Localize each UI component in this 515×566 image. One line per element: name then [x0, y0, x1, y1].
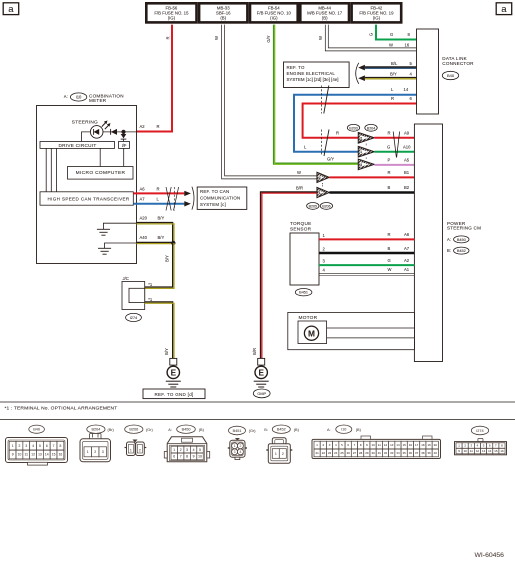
svg-text:i274: i274 [130, 315, 138, 320]
svg-text:40: 40 [434, 451, 438, 455]
svg-text:R: R [157, 124, 160, 129]
svg-text:W: W [389, 42, 393, 47]
svg-text:13: 13 [482, 449, 486, 453]
svg-text:29: 29 [365, 451, 369, 455]
svg-text:3: 3 [234, 450, 236, 454]
svg-text:1: 1 [319, 191, 321, 195]
svg-text:HIGH SPEED CAN TRANSCEIVER: HIGH SPEED CAN TRANSCEIVER [47, 197, 129, 202]
junction dot [121, 130, 125, 134]
svg-text:1: 1 [87, 450, 89, 454]
connector pinout B451 (4-pin round, gray) [229, 426, 246, 435]
wire B/L from data link connector pin 5 to engine electrical system [365, 66, 417, 68]
wire B/Y from pin A20 [137, 223, 173, 243]
svg-text:28: 28 [359, 451, 363, 455]
svg-text:2: 2 [180, 448, 182, 452]
svg-text:14: 14 [45, 453, 49, 457]
svg-text:12: 12 [31, 453, 35, 457]
svg-text:B204: B204 [91, 428, 100, 432]
svg-text:34: 34 [396, 451, 400, 455]
svg-text:A:: A: [327, 428, 331, 432]
svg-text:20: 20 [434, 443, 438, 447]
connector triangle pin 1 (B/R wire, B205/B206) [317, 187, 330, 197]
svg-text:G: G [387, 144, 390, 149]
svg-text:2: 2 [239, 444, 241, 448]
svg-text:1: 1 [173, 448, 175, 452]
svg-text:17: 17 [415, 443, 419, 447]
svg-text:12: 12 [476, 449, 480, 453]
svg-text:(IG): (IG) [270, 15, 278, 20]
svg-text:1: 1 [12, 444, 14, 448]
svg-text:10: 10 [371, 443, 375, 447]
svg-text:I/F: I/F [122, 143, 127, 148]
wires drive circuit to CAN transceiver [45, 148, 47, 191]
svg-text:(B): (B) [356, 428, 362, 432]
svg-text:11: 11 [378, 443, 381, 447]
svg-text:A:: A: [168, 428, 172, 432]
svg-text:*1 : TERMINAL No. OPTIONAL AR: *1 : TERMINAL No. OPTIONAL ARRANGEMENT [5, 406, 118, 412]
wire R from triangle (W) to power steering CM pin B1 [329, 176, 414, 178]
connector pinout B40 (16-pin data link connector) [29, 425, 45, 433]
svg-text:R: R [388, 170, 391, 175]
svg-text:i10: i10 [76, 95, 82, 100]
svg-text:B451: B451 [299, 291, 308, 295]
svg-text:A1: A1 [404, 267, 410, 272]
svg-text:A10: A10 [403, 144, 411, 149]
wire G from fuse FB-42 to data link connector pin 8 [376, 25, 417, 40]
svg-text:(B): (B) [294, 428, 300, 432]
svg-text:2: 2 [139, 448, 141, 452]
connector label B206 [320, 203, 332, 210]
diode [110, 129, 112, 135]
svg-text:SYSTEM [1c] [2d] [3e] [4e]: SYSTEM [1c] [2d] [3e] [4e] [287, 77, 339, 82]
svg-text:32: 32 [384, 451, 388, 455]
svg-text:W: W [214, 36, 219, 40]
ref box REF. TO CAN COMMUNICATION SYSTEM [197, 187, 247, 209]
svg-text:B:: B: [447, 248, 451, 253]
svg-text:REF. TO CAN: REF. TO CAN [200, 189, 229, 194]
separator line above footnote [0, 401, 515, 403]
connector label B203 [347, 124, 359, 131]
svg-text:10: 10 [464, 449, 468, 453]
svg-text:B203: B203 [349, 126, 357, 130]
svg-text:E: E [171, 369, 177, 378]
svg-text:19: 19 [427, 443, 431, 447]
svg-text:B452: B452 [457, 249, 466, 253]
svg-text:4: 4 [193, 448, 195, 452]
svg-text:B450: B450 [182, 428, 191, 432]
svg-text:7: 7 [180, 455, 182, 459]
wire R from triangle 2 to power steering CM pin A9 [374, 137, 414, 139]
svg-text:35: 35 [403, 451, 407, 455]
svg-text:30: 30 [371, 451, 375, 455]
dashed link between W and B/R triangles [322, 183, 324, 187]
connector label B40 [442, 71, 458, 79]
svg-text:B452: B452 [277, 428, 286, 432]
wire L from data link connector pin 14 to connector triangle 1 (B203) [294, 95, 417, 152]
svg-text:E: E [258, 369, 264, 378]
svg-text:11: 11 [470, 449, 473, 453]
svg-text:16: 16 [409, 443, 413, 447]
fuse box MB-33 SBF-16 (B) [199, 3, 247, 22]
svg-text:DRIVE CIRCUIT: DRIVE CIRCUIT [59, 143, 97, 148]
svg-text:B/L: B/L [391, 61, 398, 66]
wire R CAN high from pin A6 [133, 192, 184, 194]
svg-text:G: G [390, 32, 393, 37]
marker box a (top-left) [3, 3, 19, 15]
svg-text:B/R: B/R [252, 348, 257, 355]
svg-text:31: 31 [378, 451, 382, 455]
connector label B205 [307, 203, 319, 210]
svg-text:a: a [8, 4, 14, 15]
wire B/R from ground to connector triangle 1 [261, 192, 317, 358]
high speed CAN transceiver box [40, 192, 133, 205]
svg-text:10: 10 [18, 453, 22, 457]
svg-text:8: 8 [60, 444, 62, 448]
svg-text:A20: A20 [140, 216, 148, 221]
ground terminal connector [170, 358, 177, 365]
svg-text:21: 21 [316, 451, 320, 455]
svg-text:STEERING CM: STEERING CM [447, 226, 481, 231]
svg-text:16: 16 [59, 453, 63, 457]
svg-text:B/Y: B/Y [158, 235, 165, 240]
wire G torque sensor pin 3 to A2 [319, 264, 414, 266]
ground E (power steering earth) [255, 366, 267, 378]
svg-text:B204: B204 [367, 126, 375, 130]
svg-text:22: 22 [322, 451, 326, 455]
svg-text:A5: A5 [404, 158, 410, 163]
arrows to CAN communication system [184, 191, 191, 196]
svg-text:A2: A2 [140, 124, 146, 129]
svg-text:B40: B40 [33, 428, 40, 432]
marker box a (top-right) [496, 3, 512, 15]
svg-text:W: W [388, 267, 392, 272]
svg-text:METER: METER [89, 98, 107, 103]
svg-text:MICRO COMPUTER: MICRO COMPUTER [76, 170, 126, 176]
svg-text:*1: *1 [148, 282, 153, 287]
twisted pair mark on A9/A10 wires [393, 132, 396, 158]
svg-text:16: 16 [500, 449, 504, 453]
wire from LED to drive circuit [82, 132, 91, 142]
connector triangle pin 1 (L wire, B203/B204) [358, 146, 374, 157]
svg-text:(IG): (IG) [168, 15, 176, 20]
dashed links between triangles [365, 144, 367, 146]
svg-text:36: 36 [409, 451, 413, 455]
svg-text:G/Y: G/Y [266, 35, 271, 42]
svg-text:i10: i10 [341, 428, 346, 432]
motor wires to power steering CM [327, 327, 415, 329]
svg-text:B/Y: B/Y [158, 216, 165, 221]
junction dot A20/A40 [171, 241, 175, 245]
LED light arrows [102, 123, 106, 127]
svg-text:B: B [388, 185, 391, 190]
svg-text:B:: B: [264, 428, 268, 432]
svg-text:G/Y: G/Y [327, 157, 334, 162]
svg-text:25: 25 [340, 451, 344, 455]
svg-text:4: 4 [239, 450, 241, 454]
bracket for engine electrical system arrows [356, 63, 359, 84]
ground terminal connector (B/R) [258, 358, 265, 365]
svg-text:W: W [318, 36, 323, 40]
svg-text:B450: B450 [457, 238, 466, 242]
svg-text:B206: B206 [322, 204, 330, 208]
svg-text:R: R [157, 186, 160, 191]
svg-text:a: a [501, 4, 507, 15]
wire B from triangle (B/R) to power steering CM pin B2 [329, 191, 414, 193]
svg-text:24: 24 [334, 451, 338, 455]
fuse box FB-42 F/B FUSE NO. 19 (IG) [352, 3, 402, 22]
ground E (meter earth) [167, 366, 179, 378]
wire B/Y from junction to junction connector J/C [145, 243, 173, 287]
svg-text:7: 7 [53, 444, 55, 448]
ground symbol inside meter (A40) [105, 243, 137, 248]
svg-text:(Gr): (Gr) [249, 429, 256, 433]
motor assembly box [288, 312, 415, 349]
harness crossing mark on R/L wires (lower) [321, 130, 323, 157]
wire R torque sensor pin 1 to A6 [319, 238, 414, 240]
wire G/Y from fuse FB-54 to connector triangle 3 (B203) [274, 25, 358, 164]
svg-text:STEERING: STEERING [72, 120, 98, 126]
svg-text:B/Y: B/Y [164, 348, 169, 355]
svg-text:B40: B40 [447, 73, 455, 78]
svg-text:B/R: B/R [296, 186, 303, 191]
svg-text:9: 9 [193, 455, 195, 459]
svg-text:M: M [308, 329, 315, 339]
svg-text:3: 3 [102, 450, 104, 454]
wire B/Y from pin A40 [137, 241, 174, 243]
svg-text:R: R [388, 131, 391, 136]
svg-text:B2: B2 [404, 185, 410, 190]
svg-text:B205: B205 [309, 204, 317, 208]
svg-text:A9: A9 [404, 131, 410, 136]
wire W torque sensor pin 4 to A1 [319, 272, 414, 274]
svg-text:WI-60456: WI-60456 [475, 552, 505, 559]
svg-text:3: 3 [360, 163, 362, 167]
svg-text:2: 2 [94, 450, 96, 454]
svg-text:(B): (B) [220, 15, 226, 20]
svg-text:37: 37 [415, 451, 419, 455]
micro computer box [68, 167, 134, 180]
svg-text:3: 3 [186, 448, 188, 452]
fuse box FB-54 F/B FUSE NO. 10 (IG) [250, 3, 298, 22]
svg-text:2: 2 [282, 452, 284, 456]
svg-text:i274: i274 [476, 429, 483, 433]
svg-text:REF. TO GND [d]: REF. TO GND [d] [154, 392, 193, 397]
data link connector B40 box [417, 29, 439, 114]
wire B/Y from data link connector pin 4 to engine electrical system [365, 77, 417, 79]
connector triangle pin 3 (G/Y wire, B203/B204) [358, 159, 374, 170]
svg-text:R: R [336, 131, 339, 136]
connector label B451 [295, 289, 312, 296]
connector label i274 [126, 313, 142, 321]
svg-text:R: R [391, 96, 394, 101]
svg-text:2: 2 [360, 136, 362, 140]
svg-text:11: 11 [25, 453, 29, 457]
svg-text:4: 4 [32, 444, 34, 448]
svg-text:14: 14 [396, 443, 400, 447]
svg-text:G: G [368, 33, 373, 36]
svg-text:A6: A6 [404, 232, 410, 237]
connector triangle pin 2 (R wire, B203/B204) [358, 132, 374, 143]
svg-text:SENSOR: SENSOR [290, 227, 312, 232]
svg-text:13: 13 [38, 453, 42, 457]
fuse box MB-44 M/B FUSE NO. 17 (B) [300, 3, 349, 22]
svg-text:26: 26 [347, 451, 351, 455]
motor box with M symbol [298, 321, 327, 344]
svg-text:CONNECTOR: CONNECTOR [442, 61, 474, 66]
svg-text:2: 2 [19, 444, 21, 448]
svg-text:1: 1 [234, 444, 236, 448]
svg-text:A7: A7 [404, 246, 410, 251]
svg-text:14: 14 [404, 87, 409, 92]
svg-text:5: 5 [39, 444, 41, 448]
svg-text:B206: B206 [129, 428, 138, 432]
svg-text:5: 5 [199, 448, 201, 452]
svg-text:14: 14 [488, 449, 492, 453]
svg-text:(Gr): (Gr) [146, 428, 153, 432]
svg-text:15: 15 [494, 449, 498, 453]
svg-text:15: 15 [403, 443, 407, 447]
svg-text:ENGINE ELECTRICAL: ENGINE ELECTRICAL [287, 71, 336, 76]
svg-text:12: 12 [384, 443, 388, 447]
svg-text:(Br): (Br) [108, 428, 115, 432]
svg-text:REF. TO: REF. TO [287, 65, 305, 70]
svg-text:13: 13 [390, 443, 394, 447]
harness crossing mark on L/R wires (upper) [321, 86, 323, 114]
svg-text:33: 33 [390, 451, 394, 455]
svg-text:*1: *1 [148, 297, 153, 302]
svg-text:G: G [388, 258, 391, 263]
wires drive circuit to micro computer and I/F to micro computer [99, 148, 101, 166]
svg-text:R: R [388, 232, 391, 237]
svg-text:A40: A40 [140, 235, 148, 240]
svg-text:TORQUE: TORQUE [290, 221, 311, 226]
connector label B204 [365, 124, 377, 131]
I/F box [119, 142, 130, 149]
wire B/Y from J/C to ground [145, 302, 173, 358]
svg-text:B: B [388, 246, 391, 251]
connector label B450 [454, 236, 469, 243]
svg-text:10: 10 [198, 455, 202, 459]
svg-text:2: 2 [319, 176, 321, 180]
wire from LED through diode to pin A2 [103, 131, 137, 133]
ground symbol inside meter (A20) [103, 223, 136, 229]
svg-text:B451: B451 [233, 429, 242, 433]
fuse box FB-56 F/B FUSE NO. 15 (IG) [146, 3, 196, 22]
ref box REF. TO GND [143, 389, 205, 399]
svg-text:GMP: GMP [257, 392, 266, 396]
wire W from fuse MB-33 down to connector triangle 2 (B205) [222, 25, 318, 179]
wire R from data link connector pin 6 to connector triangle 2 (B203) [303, 104, 417, 138]
ground point label GMP [253, 389, 270, 398]
svg-text:1: 1 [275, 452, 277, 456]
wire G from triangle 1 to power steering CM pin A10 [374, 151, 414, 153]
wire P from triangle 3 to power steering CM pin A5 [374, 164, 414, 166]
svg-text:A2: A2 [404, 258, 410, 263]
separator line below footnote [0, 419, 515, 421]
connector pinout B204 (3-pin, brown) [87, 425, 105, 433]
bracket for CAN arrows [192, 187, 194, 210]
svg-text:A6: A6 [140, 186, 146, 191]
svg-text:(B): (B) [322, 15, 328, 20]
wire W from fuse MB-44 to data link connector pin 16 [325, 25, 416, 51]
svg-text:23: 23 [328, 451, 332, 455]
svg-text:1: 1 [360, 150, 362, 154]
diode to I/F [123, 132, 125, 134]
connector pinout B206 (2-pin, gray) [125, 425, 143, 433]
svg-text:39: 39 [427, 451, 431, 455]
wire L CAN low from pin A7 [133, 203, 184, 205]
svg-text:J/C: J/C [123, 276, 129, 281]
ref box REF. TO ENGINE ELECTRICAL SYSTEM [284, 62, 350, 88]
svg-text:18: 18 [421, 443, 425, 447]
svg-text:(IG): (IG) [373, 15, 381, 20]
connector pinout i274 (16-pin junction connector) [471, 426, 488, 435]
svg-text:P: P [388, 158, 391, 163]
svg-text:8: 8 [186, 455, 188, 459]
drive circuit box [40, 142, 115, 149]
wire R from fuse FB-56 to combination meter pin A2 [137, 25, 173, 132]
svg-text:6: 6 [46, 444, 48, 448]
twisted pair and crossing marks on CAN wires [166, 187, 171, 211]
svg-text:A7: A7 [140, 197, 146, 202]
svg-text:B/Y: B/Y [165, 255, 170, 262]
connector triangle pin 2 (W wire, B205/B206) [317, 172, 330, 182]
combination meter box i10 [37, 106, 137, 264]
svg-text:16: 16 [405, 42, 410, 47]
svg-text:3: 3 [25, 444, 27, 448]
svg-text:W: W [297, 170, 301, 175]
svg-text:27: 27 [353, 451, 357, 455]
svg-text:R: R [165, 36, 170, 39]
connector label i10 [70, 93, 86, 101]
svg-text:(B): (B) [199, 428, 205, 432]
svg-text:6: 6 [173, 455, 175, 459]
svg-text:1: 1 [130, 448, 132, 452]
svg-text:A:: A: [447, 237, 451, 242]
svg-text:B1: B1 [404, 170, 410, 175]
svg-text:COMMUNICATION: COMMUNICATION [200, 195, 240, 200]
svg-text:MOTOR: MOTOR [299, 315, 318, 321]
svg-text:SYSTEM [c]: SYSTEM [c] [200, 202, 226, 207]
svg-text:A:: A: [64, 94, 68, 99]
svg-text:38: 38 [421, 451, 425, 455]
svg-text:9: 9 [12, 453, 14, 457]
wire B torque sensor pin 2 to A7 [319, 252, 414, 254]
connector label B452 [454, 247, 469, 254]
svg-text:B/Y: B/Y [390, 71, 397, 76]
power steering control module box [414, 124, 442, 362]
svg-text:15: 15 [52, 453, 56, 457]
